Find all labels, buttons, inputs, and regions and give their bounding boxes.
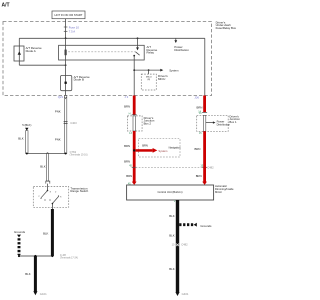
wire switch output [51,204,53,210]
node MICU tap [148,69,150,71]
wire red nav arrow [136,149,153,152]
svg-text:BLK: BLK [169,267,174,271]
svg-text:Box 1: Box 1 [229,120,237,124]
svg-text:C482: C482 [207,165,214,169]
wire relay coil column [65,38,67,75]
wire bus right drop [204,38,206,95]
dashed box: under-dash fuse/relay box border [3,22,212,96]
node ground branch [176,224,178,226]
red arrow into box right [202,182,207,185]
diode B wire through [65,75,67,95]
HOT IN ON OR START box [52,11,85,19]
label Power Distribution [174,45,189,52]
switch pivot node [47,190,49,192]
label Driver's Under-dash Fuse/Relay Box [216,20,237,30]
svg-text:C-08: C-08 [60,253,66,257]
svg-text:Grounds: Grounds [200,224,212,228]
svg-text:BRN: BRN [124,105,130,109]
node branch start [133,69,135,71]
diode B wire inside [65,75,67,90]
relay input arrow [136,47,139,50]
wire red right segment 1 [203,96,206,113]
node tee mid [47,153,49,155]
diode B box [61,75,72,90]
svg-text:J 3: J 3 [124,95,128,99]
label MICU internal [146,77,152,82]
label A/T Reverse Diode A [26,46,42,53]
switch contacts [40,195,59,200]
nav arrowhead [153,148,158,153]
connector C403 ticks [64,122,68,124]
wire ground tee line [19,255,52,257]
svg-text:Diode B: Diode B [74,78,84,82]
svg-text:C763: C763 [70,150,77,154]
transmission range switch dashed box [33,187,68,208]
svg-text:BLK: BLK [43,232,48,236]
relay coil bar [64,50,66,56]
wire BLK thick to G101 [34,256,37,292]
navigation dashed box [139,139,180,157]
label Driver's Junction Box 2 [144,116,155,126]
label A/T Reverse Relay [147,45,158,55]
svg-text:C403: C403 [70,121,77,125]
grounds arrow right [194,223,197,227]
wire BLK thick from switch [51,209,54,256]
wire ground dashed thick right [179,223,193,226]
terminal tick right [202,111,207,113]
wire into switch [47,184,49,191]
grounds incoming arrow [17,235,21,238]
svg-text:Distribution: Distribution [174,48,189,52]
wire system branch [134,69,161,71]
svg-text:C482: C482 [181,243,188,247]
wire hollow in junction box 2 [133,116,135,131]
wire bus [19,37,205,39]
wire red left segment 1 [133,96,136,115]
relay link dashed line [68,51,135,53]
wire relay input drop [137,38,139,47]
svg-text:System: System [169,68,179,72]
svg-text:MICU: MICU [158,77,165,81]
svg-text:G101: G101 [40,292,47,296]
wire ground dashed thick [18,238,21,255]
wire diode A to coil line [19,64,65,66]
node relay contact [133,55,135,57]
op relay box U1 [59,45,145,60]
svg-text:H: H [129,113,131,116]
svg-text:7.5 A: 7.5 A [69,30,76,34]
diode A arrow [18,51,21,54]
wire BLK thick from control unit [176,200,179,293]
node fuse-bus junction [65,37,67,39]
wire hollow BLK incoming [26,131,28,154]
node coil junction [65,64,67,66]
diode A wire through [18,46,20,65]
terminal tick right wire [202,166,207,168]
svg-text:J06: J06 [194,96,199,100]
svg-text:BRN: BRN [142,143,148,147]
label Driver's Junction Box 1 [229,114,240,124]
power distribution arrow inside [206,122,214,124]
svg-text:BRN: BRN [196,106,202,110]
svg-text:(Terminals 15-16): (Terminals 15-16) [70,154,88,157]
label Transmission Range Switch [70,186,88,193]
wire tee line [27,153,66,155]
svg-text:PNK: PNK [55,138,61,142]
wire red right segment 2 [203,131,206,182]
svg-text:System: System [158,149,168,153]
svg-text:PNK: PNK [55,110,61,114]
svg-text:(Terminals 17-24): (Terminals 17-24) [60,257,78,260]
wire red left segment 2 [133,131,136,182]
svg-text:BLK: BLK [25,272,30,276]
svg-text:BRN: BRN [126,174,132,178]
label Automatic Dimming Mirror [215,184,234,194]
connector bracket above switch [46,181,50,184]
svg-text:Control Unit (Built-In): Control Unit (Built-In) [157,190,182,194]
ground G401 terminal [175,292,179,296]
node gnd tee right [51,255,53,257]
svg-text:BRN: BRN [124,159,130,163]
switch blade 2 [52,197,58,204]
incoming arrow [25,128,28,131]
switch blade [41,191,48,198]
svg-text:G401: G401 [182,292,189,296]
red arrow into box left [132,182,137,185]
svg-text:BRN: BRN [124,144,130,148]
svg-text:Range Switch: Range Switch [70,189,88,193]
power distribution arrow [175,38,177,40]
node tee left [26,153,28,155]
MICU dashed box [141,74,156,90]
control unit box [127,185,214,200]
wire from HOT box to fuse [65,19,67,27]
svg-text:BLK: BLK [169,214,174,218]
terminal tick [132,114,137,116]
diode B element [65,82,67,84]
svg-text:Diode A: Diode A [26,49,36,53]
svg-text:Relay: Relay [147,51,155,55]
diode A box [14,46,24,61]
svg-text:HOT IN ON OR START: HOT IN ON OR START [55,13,83,17]
svg-text:(8): (8) [147,79,150,81]
svg-text:BLK: BLK [40,165,45,169]
node gnd tee left [18,255,20,257]
wire MICU stub [148,70,150,74]
connector dashed link [136,166,204,168]
connector C482 chevrons [176,243,179,246]
fuse value label [69,26,80,34]
label Power Distribution inside [217,120,231,127]
svg-text:A/T: A/T [2,2,10,8]
terminal tick left wire [132,166,137,168]
svg-text:BLK: BLK [169,234,174,238]
wire bus left drop to diode A [18,38,20,46]
wire fuse to bus [65,31,67,38]
svg-text:Box 2: Box 2 [144,121,152,125]
node relay-input junction [137,37,139,39]
ground G101 terminal [33,291,37,295]
svg-text:Q21: Q21 [58,95,64,99]
system arrowhead [160,69,163,72]
switch position labels [39,191,63,198]
svg-text:Fuse/Relay Box: Fuse/Relay Box [216,26,237,30]
node tee right [65,153,67,155]
label Driver's MICU [158,74,168,81]
relay switch blade [136,52,140,55]
svg-text:5 (BLK): 5 (BLK) [22,123,31,127]
node gnd tee mid [34,255,36,257]
svg-text:Navigation: Navigation [169,147,181,150]
label A/T Reverse Diode B [74,75,90,82]
wire hollow to range switch [46,154,48,182]
wire hollow PNK column [64,96,66,154]
fuse F10 [64,27,68,31]
svg-text:BLK: BLK [18,136,23,140]
wire relay output down [133,56,135,96]
svg-text:Mirror: Mirror [215,190,222,194]
svg-text:BRN: BRN [196,174,202,178]
node nav tap [133,149,135,151]
connector chevron below border [64,97,67,99]
junction box 2 dashed [127,116,142,131]
svg-text:BRN: BRN [194,147,200,151]
junction box 1 dashed [197,115,229,131]
svg-text:Grounds: Grounds [14,230,26,234]
wire hollow in junction box 1 [203,115,205,131]
